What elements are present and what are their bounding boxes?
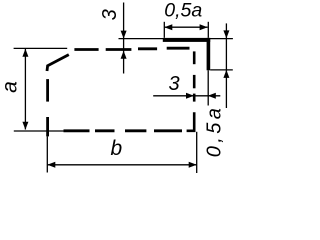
dashed outline: top edge dash 2 [106,48,132,51]
dimension 0,5a (top): dimension line [164,26,207,28]
dashed outline: bottom edge dash 1 [64,129,90,132]
dimension 0,5a (top): left arrowhead [164,24,172,30]
dimension b: right arrowhead [189,162,197,168]
dashed outline: top edge dash 1 [74,48,98,51]
dimension b: right extension line [196,132,198,173]
svg-text:3: 3 [99,9,121,20]
thick flange: vertical leg (0,5a long) [207,38,211,70]
svg-text:a: a [0,81,21,93]
dashed outline: bottom edge dash 3 [125,129,146,132]
dashed outline: right edge dash 2 [193,75,196,88]
svg-text:0,5a: 0,5a [204,105,226,158]
dashed outline: bottom edge dash 4 [154,129,182,132]
dashed outline: right edge dash 3 [193,94,196,102]
dimension 3 (middle right): left arrowhead pointing right at dashed edge [186,93,194,99]
dimension a: top arrowhead [22,49,28,57]
dimension 3 (middle right): dimension line with outside arrows [153,95,220,97]
dimension 3 (top): vertical dimension line [123,3,125,74]
dimension a: top extension line [14,47,68,49]
dashed outline: bottom edge dash 2 [95,129,115,132]
dimension b: left extension line [46,136,48,172]
svg-text:b: b [110,137,122,160]
dashed outline: top-left chamfer dash [47,55,69,71]
dimension a: bottom arrowhead [22,122,28,130]
dashed outline: right edge dash 1 [193,51,196,64]
extension line right of flange bottom end (for right 0,5a) [210,69,233,71]
dimension 0,5a (right): upper arrowhead pointing down [223,30,229,38]
dimension b: dimension line [47,164,196,166]
dashed outline: right edge corner dash (L into bottom edge) [187,112,195,131]
dimension 0,5a (right): vertical dimension line [225,23,227,108]
extension line below flange vertical leg (for dimension 3) [207,70,209,105]
dimension a: dimension line [24,49,26,130]
dimension 3 (middle right): right arrowhead pointing left at extension line [208,93,216,99]
dimension a: bottom extension line [14,130,64,132]
svg-text:3: 3 [168,73,179,95]
dashed outline: left edge dash 1 [46,79,49,102]
dashed outline: top edge dash 4 [167,47,190,50]
dimension 0,5a (top): right extension line [207,22,209,38]
dimension 3 (top): upper arrowhead pointing down at surface line [121,31,127,39]
dimension 0,5a (right): lower arrowhead pointing up [223,70,229,78]
svg-text:0,5a: 0,5a [164,0,202,21]
dimension 3 (top): lower arrowhead pointing up at dashed edge [121,51,127,59]
thin sheet-surface line (top, extension for dimension 3) [119,38,233,40]
dimension b: left arrowhead [47,162,55,168]
dimension 0,5a (top): left extension line [163,22,165,38]
thick flange: horizontal leg (0,5a long) [163,38,210,42]
dimension 0,5a (top): right arrowhead [200,24,208,30]
dashed outline: left edge dash 2 (crosses bottom corner) [46,117,49,136]
dashed outline: top edge dash 3 [138,47,157,50]
